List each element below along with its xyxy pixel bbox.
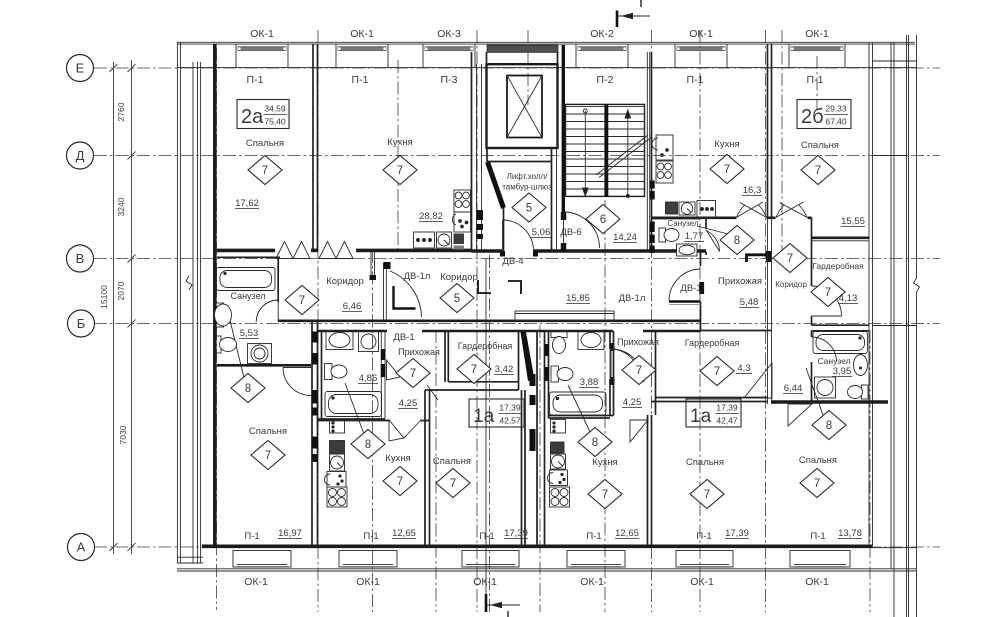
svg-text:16,3: 16,3: [743, 185, 762, 196]
svg-text:Коридор: Коридор: [775, 280, 807, 289]
stair treads: [566, 114, 645, 189]
black wedge at wardrobe east: [521, 332, 535, 381]
svg-text:Спальня: Спальня: [801, 140, 839, 151]
kitchen 12,65 right east wall: [647, 415, 649, 546]
svg-text:Спальня: Спальня: [799, 455, 837, 466]
svg-text:П-2: П-2: [597, 74, 614, 86]
svg-text:7: 7: [410, 368, 416, 380]
svg-text:ДВ-1: ДВ-1: [393, 332, 414, 343]
svg-text:42,57: 42,57: [499, 416, 521, 426]
svg-text:ОК-1: ОК-1: [350, 28, 374, 40]
top window OK-2: [576, 44, 628, 68]
elevator shaft wall stubs to facade: [486, 52, 488, 64]
svg-text:6,46: 6,46: [343, 301, 362, 312]
svg-text:Санузел: Санузел: [230, 291, 265, 301]
diamond 5 corridor 15,85: [440, 284, 474, 313]
axis circle V: [67, 245, 94, 272]
door DV-1l swing arc: [390, 271, 422, 317]
washbasin bathroom 5,53: [214, 303, 232, 327]
right wall top corner connector: [873, 60, 917, 62]
apartment tag 2b: [797, 100, 851, 129]
corridor north wall segments under core: [534, 249, 565, 253]
svg-text:П-1: П-1: [696, 531, 711, 542]
svg-text:Спальня: Спальня: [246, 138, 284, 149]
corridor south wall inner face segments: [318, 330, 387, 333]
bottom outer face double: [177, 568, 916, 570]
left wall break mark: [186, 276, 192, 290]
svg-text:П-1: П-1: [687, 74, 704, 86]
section trace line 1-1: [485, 258, 487, 596]
mid-right bathroom toilet2: [551, 366, 573, 382]
2b bathroom toilet: [848, 385, 869, 399]
kitchen 16,3 south wall with door openings: [652, 217, 737, 220]
stair central stringer black bar: [604, 104, 608, 196]
svg-text:3,95: 3,95: [833, 366, 852, 377]
svg-text:16,97: 16,97: [278, 528, 302, 539]
wardrobe 4,13 door: [812, 286, 842, 316]
black frame marks at lobby door: [500, 251, 505, 257]
diamond 7 bedroom 17,39 left: [436, 469, 470, 498]
stair door DV-6 leaf and arc: [564, 212, 600, 248]
apartment west wall thick: [213, 44, 217, 546]
svg-text:Гардеробная: Гардеробная: [685, 338, 740, 348]
kitchen 16,3 / bedroom 2b west wall pair: [767, 44, 769, 218]
svg-text:В: В: [76, 251, 85, 266]
diamond 8 bathroom 4,86: [351, 430, 385, 459]
axis circle D: [67, 142, 94, 169]
svg-text:ОК-1: ОК-1: [689, 28, 713, 40]
top window labels: [250, 28, 829, 40]
svg-text:ДВ-1: ДВ-1: [680, 283, 701, 294]
svg-text:А: А: [77, 540, 86, 555]
diamond 7 kitchen-living 2a: [383, 156, 417, 185]
svg-text:П-1: П-1: [244, 531, 259, 542]
svg-text:7: 7: [724, 164, 730, 176]
stair break diagonal double line: [596, 135, 651, 178]
svg-text:7: 7: [602, 489, 608, 501]
kitchen-living 2a dark unit: [454, 234, 465, 245]
2b bathroom washbasin oval: [854, 355, 868, 376]
svg-text:3,42: 3,42: [495, 364, 514, 375]
svg-text:5,53: 5,53: [240, 328, 259, 339]
stair walk line left flight with down arrow: [583, 109, 589, 196]
svg-text:ОК-1: ОК-1: [690, 576, 714, 588]
prihozhaya 4,25 east wall: [444, 331, 446, 382]
small bathroom 1,77 walls: [652, 218, 701, 220]
svg-text:ОК-1: ОК-1: [244, 576, 268, 588]
mid-left bathroom bathtub: [325, 392, 382, 417]
horizontal axis line E: [94, 67, 940, 69]
kitchen right top wall: [549, 417, 611, 419]
svg-text:7: 7: [787, 253, 793, 265]
prihozhaya 5,48 south wall: [701, 330, 772, 332]
bedroom 13,78 north wall: [772, 400, 889, 404]
svg-text:7: 7: [397, 165, 403, 177]
svg-text:5: 5: [454, 293, 460, 305]
svg-text:7: 7: [636, 365, 642, 377]
diamond 7 kitchen 16,3: [710, 155, 744, 184]
bedroom 17,39 left door leaf: [427, 385, 438, 400]
corridor 15,85 south wall outer face: [318, 319, 701, 322]
bedroom 16,97 east wall: [311, 321, 313, 546]
svg-text:15,55: 15,55: [841, 216, 865, 227]
horizontal axis line D: [94, 155, 940, 157]
stair walk line right flight with up arrow: [625, 110, 631, 198]
leader line diamond 8 small bathroom 1,77: [697, 226, 728, 234]
svg-text:7: 7: [814, 478, 820, 490]
kitchen 16,3 double door leaves: [737, 202, 767, 217]
kitchen-living 2a washer: [437, 232, 452, 248]
door into bedroom 16,97: [283, 368, 311, 396]
svg-text:П-1: П-1: [810, 531, 825, 542]
top facade outer double line: [177, 41, 915, 43]
svg-text:28,82: 28,82: [419, 211, 443, 222]
svg-text:7: 7: [704, 489, 710, 501]
corridor 6,46 east wall upper: [370, 251, 372, 276]
svg-text:ДВ-1л: ДВ-1л: [619, 293, 646, 304]
kitchen right entry triangle: [630, 420, 648, 442]
svg-text:4,3: 4,3: [737, 363, 750, 374]
wardrobe 4,3 south wall / bedroom right north wall: [656, 397, 769, 399]
2b bathroom washer: [815, 377, 836, 398]
svg-text:Санузел: Санузел: [817, 356, 850, 366]
diamond 7 bedroom 16,97: [251, 441, 285, 470]
door DV-1l jamb wall: [383, 263, 385, 321]
svg-text:12,65: 12,65: [392, 528, 416, 539]
wardrobe 3,42 south wall double: [448, 381, 518, 383]
axis circle E: [67, 55, 94, 82]
thick partition piece in prihozhaya 5,48: [747, 255, 772, 262]
bedroom 2b double door leaves: [776, 202, 807, 217]
svg-text:Прихожая: Прихожая: [398, 347, 440, 357]
entry door DV-1l right leaf and arc: [611, 349, 644, 382]
svg-text:ОК-1: ОК-1: [473, 576, 497, 588]
kitchen-living 2a counter with dots: [414, 232, 435, 248]
stair bottom wall segment: [565, 249, 598, 253]
vertical grid axis lines: [217, 30, 871, 612]
shaft strip walls between apartments: [536, 331, 538, 546]
diamond 7 bedroom 17,39 right: [690, 480, 724, 509]
svg-text:П-1: П-1: [247, 74, 264, 86]
shower/washer bathroom 5,53: [248, 344, 272, 364]
svg-text:7: 7: [397, 476, 403, 488]
elevator shaft outer: [487, 64, 558, 148]
svg-text:Санузел: Санузел: [667, 219, 698, 228]
kitchen left door triangles: [389, 420, 404, 441]
toilet bathroom 5,53: [214, 336, 237, 353]
svg-text:7: 7: [815, 165, 821, 177]
svg-text:Спальня: Спальня: [686, 457, 724, 468]
svg-text:1,77: 1,77: [685, 231, 704, 242]
stairwell west wall: [562, 45, 565, 212]
lobby west wall: [503, 208, 505, 251]
svg-text:ОК-1: ОК-1: [250, 28, 274, 40]
svg-text:1а: 1а: [473, 406, 495, 427]
svg-text:15,85: 15,85: [566, 293, 590, 304]
svg-text:15100: 15100: [99, 285, 109, 309]
svg-text:2б: 2б: [801, 106, 824, 128]
svg-text:П-1: П-1: [352, 74, 369, 86]
svg-text:8: 8: [826, 420, 832, 432]
bathroom 5,53 south wall: [217, 364, 311, 367]
apartment tag 2a: [237, 100, 289, 129]
diamond 7 bedroom 2a: [248, 156, 282, 185]
svg-text:34,59: 34,59: [264, 104, 286, 114]
svg-text:3,88: 3,88: [580, 377, 599, 388]
RIGHT 1a bathroom 3,88 walls: [548, 331, 550, 418]
svg-text:4,25: 4,25: [623, 397, 642, 408]
diamond 7 bedroom 13,78: [800, 469, 834, 498]
prihozhaya 5,48 west wall with door opening: [700, 251, 702, 267]
section mark top: [617, 0, 650, 27]
corridor top wall (south wall of top rooms) with door openings: [217, 249, 275, 253]
svg-text:4,25: 4,25: [399, 398, 418, 409]
vent duct black marks: [477, 210, 484, 220]
kitchen 16,3 appliance stack: [652, 135, 716, 218]
mid-left bathroom washer: [359, 332, 379, 352]
svg-text:П-3: П-3: [441, 74, 458, 86]
wall between bedroom1 and kitchen-living 2a: [312, 44, 314, 249]
diamond 7 kitchen right: [588, 480, 622, 509]
elevator cab: [507, 76, 542, 138]
top facade inner face: [177, 67, 916, 69]
svg-text:7: 7: [714, 366, 720, 378]
area value labels with underline: [235, 185, 865, 409]
svg-text:Д: Д: [76, 148, 85, 163]
svg-text:П-1: П-1: [807, 74, 824, 86]
svg-text:2а: 2а: [241, 106, 264, 128]
diamond 7 bedroom 2b: [801, 156, 835, 185]
svg-text:Спальня: Спальня: [249, 426, 287, 437]
bottom-left corner lines: [177, 556, 203, 558]
axis circle B: [68, 310, 95, 337]
door DV-1l open leaf: [394, 286, 416, 309]
bottom window bays: [233, 551, 850, 568]
hatched shaft band on facade: [487, 45, 558, 52]
prihozhaya 5,48 door DV-1: [669, 300, 701, 302]
mid-left bathroom toilet: [325, 364, 348, 380]
svg-text:ДВ-4: ДВ-4: [502, 256, 523, 267]
right outer wall pairs: [868, 43, 870, 546]
kitchen 12,65 left top wall segments: [318, 420, 390, 422]
svg-text:Кухня: Кухня: [714, 139, 739, 150]
svg-text:7: 7: [265, 450, 271, 462]
svg-text:17,39: 17,39: [716, 403, 738, 413]
door triangle corridor leg 6,44: [744, 363, 772, 398]
horizontal axis line B: [94, 323, 940, 325]
bedroom 17,39 left east wall: [521, 390, 523, 546]
top window OK-1 no3: [675, 44, 727, 68]
leader line diamond 8 mid-left bathroom: [345, 383, 364, 434]
dim ticks on inner chain: [110, 64, 136, 551]
right outer secondary line with break: [916, 35, 918, 278]
top window OK-1 no1: [236, 44, 288, 68]
diamond 8 bathroom 5,53: [231, 374, 265, 403]
panel type labels row: [247, 74, 824, 86]
corridor 6,46 south wall: [278, 319, 318, 322]
mid-right bathroom bathtub: [550, 392, 607, 415]
bathroom 3,88 door: [610, 349, 640, 379]
svg-text:ОК-1: ОК-1: [805, 28, 829, 40]
kitchen-living east wall: [471, 52, 473, 251]
svg-text:8: 8: [245, 383, 251, 395]
black frame mark on corridor strip wall: [766, 251, 772, 262]
kitchen 12,65 right appliance stack: [548, 420, 570, 508]
stair flight box: [566, 104, 645, 196]
diamond 8 bathroom 3,88: [578, 428, 612, 457]
diamond 7 wardrobe 3,42: [457, 355, 491, 384]
svg-text:17,39: 17,39: [504, 528, 528, 539]
bathtub bathroom 5,53: [217, 268, 276, 291]
bathroom 1,77 door leaf and arc: [706, 230, 720, 252]
svg-text:7: 7: [262, 165, 268, 177]
svg-text:8: 8: [592, 437, 598, 449]
svg-text:7030: 7030: [118, 425, 128, 444]
svg-text:2070: 2070: [116, 281, 126, 300]
mid-right bathroom countertop sink: [578, 331, 604, 350]
stairwell east wall: [646, 52, 648, 251]
svg-text:4,86: 4,86: [359, 373, 378, 384]
svg-text:6,44: 6,44: [784, 383, 803, 394]
leader line diamond 8 mid-right bathroom: [568, 385, 590, 432]
svg-text:29,33: 29,33: [825, 104, 847, 114]
mid-left bathroom 4,86 countertop sink: [326, 331, 353, 350]
bottom row panel labels and areas: [244, 528, 862, 542]
bathroom 4,86 door triangle: [387, 360, 401, 380]
svg-text:5,06: 5,06: [532, 227, 551, 238]
diamond 7 wardrobe 4,13: [811, 278, 845, 307]
svg-text:2760: 2760: [116, 102, 126, 121]
svg-text:3240: 3240: [116, 197, 126, 216]
bathroom 5,53 door leaf and arc: [256, 300, 278, 322]
svg-text:7: 7: [471, 364, 477, 376]
top window OK-1 no4: [789, 44, 845, 68]
diamond 5 lobby: [512, 193, 546, 222]
mid-right bathroom 3,88 toilet vertical: [551, 331, 567, 354]
svg-text:4,13: 4,13: [839, 293, 858, 304]
dimension chain line outer 15100: [113, 62, 115, 554]
svg-text:1а: 1а: [690, 406, 712, 427]
kitchen-living 2a appliance stack: stove: [454, 190, 471, 212]
diamond 6 stairs: [586, 205, 620, 234]
door triangle into bedroom 13,78: [788, 404, 812, 426]
kitchen-living 2a sink double bowl: [452, 212, 470, 232]
svg-text:Прихожая: Прихожая: [617, 337, 659, 347]
vent black marks right of stairs: [650, 181, 655, 189]
corridor jog wall: [811, 217, 813, 242]
diamond 8 bathroom 3,95: [812, 411, 846, 440]
leader line diamond 8 2b bathroom: [806, 368, 823, 415]
bathroom 3,95 west wall with door: [811, 331, 813, 337]
room number diamonds: [231, 155, 846, 509]
structural fill in east wall of bedroom 16,97: [312, 332, 318, 343]
svg-text:Спальня: Спальня: [433, 456, 471, 467]
svg-text:12,65: 12,65: [615, 528, 639, 539]
kitchen 12,65 left appliance stack: [325, 420, 348, 508]
svg-text:8: 8: [365, 439, 371, 451]
svg-text:Б: Б: [77, 316, 86, 331]
lobby door DV-4 leaf and arc: [503, 220, 534, 251]
svg-text:Е: Е: [76, 61, 85, 76]
svg-text:ОК-1: ОК-1: [356, 576, 380, 588]
bottom window labels: [244, 576, 829, 588]
svg-text:П-1: П-1: [479, 531, 494, 542]
svg-text:8: 8: [734, 235, 740, 247]
svg-text:6: 6: [600, 214, 606, 226]
diamond 7 corridor 6,46: [285, 286, 319, 315]
svg-text:75,40: 75,40: [264, 117, 286, 127]
room name labels: [230, 137, 864, 468]
elevator lobby top wall: [487, 161, 552, 163]
svg-text:17,62: 17,62: [235, 198, 259, 209]
lobby chamfered west wall (thick diagonal): [488, 162, 504, 208]
diamond 7 corridor 2b: [773, 244, 807, 273]
prihozhaya 5,48 door jamb black mark: [699, 282, 704, 294]
prihozhaya/wardrobe separator right: [655, 331, 657, 415]
wardrobe 3,42 east wall: [518, 331, 520, 390]
diamond 7 wardrobe 4,3: [700, 357, 734, 386]
door DV-1l hinge flag: [384, 262, 391, 269]
wardrobe 4,13 south wall / bathroom 3,95 north wall: [812, 324, 870, 326]
svg-text:ОК-3: ОК-3: [437, 28, 461, 40]
small bathroom 1,77 toilet: [659, 228, 679, 242]
svg-text:тамбур-шлюз: тамбур-шлюз: [502, 183, 552, 192]
2b bathroom 3,95 bathtub: [813, 332, 868, 354]
svg-text:ОК-1: ОК-1: [580, 576, 604, 588]
vent strip lines near elevator: [476, 64, 478, 251]
dimension chain line inner: [131, 60, 133, 554]
svg-text:17,39: 17,39: [725, 528, 749, 539]
svg-text:67,40: 67,40: [825, 117, 847, 127]
svg-text:Кухня: Кухня: [385, 453, 410, 464]
bathroom 5,53 north wall: [217, 256, 280, 258]
svg-text:Лифт.холл/: Лифт.холл/: [507, 172, 549, 181]
prihozhaya right west wall: [613, 331, 615, 416]
diamond 7 kitchen left: [383, 467, 417, 496]
svg-text:13,78: 13,78: [838, 528, 862, 539]
wardrobe 4,13 west wall with door opening: [811, 242, 813, 286]
top window OK-1 no2: [336, 44, 388, 68]
svg-text:Коридор: Коридор: [440, 272, 478, 283]
slab joint lines in right wall zone: [873, 155, 907, 157]
small bathroom 1,77 basin: [677, 244, 698, 256]
svg-text:ДВ-1л: ДВ-1л: [404, 271, 431, 282]
apartment tag 1a left: [469, 399, 524, 427]
double door leaf triangles bedroom1: [276, 242, 293, 259]
svg-text:Гардеробная: Гардеробная: [812, 261, 864, 271]
bathroom 5,53 east wall: [277, 257, 279, 302]
svg-text:17,39: 17,39: [499, 403, 521, 413]
bedroom 17,39 left west wall: [424, 390, 426, 546]
svg-text:7: 7: [825, 287, 831, 299]
svg-text:ОК-1: ОК-1: [805, 576, 829, 588]
bottom floor wall thick: [202, 544, 873, 548]
top window OK-3: [423, 44, 475, 68]
svg-text:7: 7: [450, 478, 456, 490]
horizontal axis line A: [94, 546, 940, 548]
corridor mat rectangle: [515, 311, 614, 320]
svg-text:Кухня: Кухня: [592, 457, 617, 468]
leader line diamond 8 left bathroom: [228, 312, 244, 378]
svg-text:П-1: П-1: [586, 531, 601, 542]
elevator cab cross: [507, 76, 542, 138]
svg-text:Гардеробная: Гардеробная: [458, 341, 513, 351]
svg-text:14,24: 14,24: [613, 232, 637, 243]
svg-text:Прихожая: Прихожая: [718, 276, 762, 287]
svg-text:5: 5: [526, 203, 532, 215]
bedroom 2b south wall east part: [812, 237, 870, 240]
LEFT 1a bathroom 4,86 walls: [321, 331, 323, 419]
